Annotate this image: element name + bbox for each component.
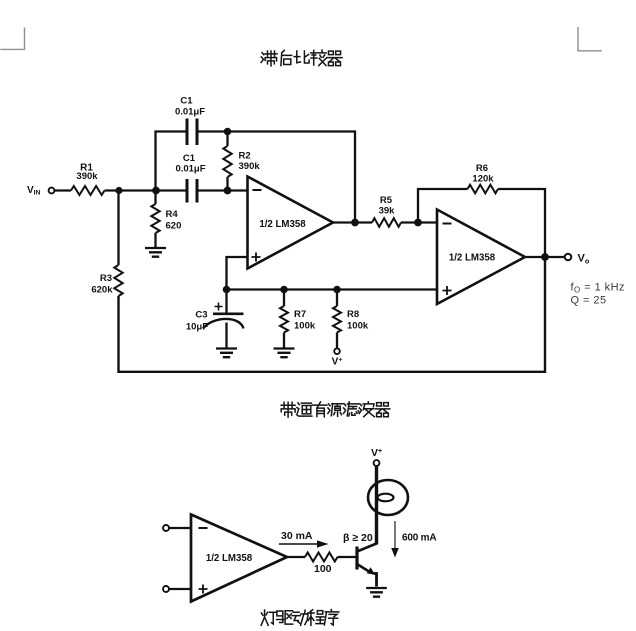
- transistor Q1 base bar: [355, 547, 358, 570]
- resistor R5: [372, 218, 401, 227]
- ground below C3: [216, 349, 237, 358]
- op-amp U1 (1/2 LM358) triangle: [248, 177, 334, 269]
- svg-text:39k: 39k: [379, 206, 396, 217]
- page corner mark top-left: [0, 28, 24, 50]
- capacitor C3 curved plate: [203, 319, 244, 329]
- label Q = 25: [571, 295, 607, 307]
- op-amp U2 (1/2 LM358) triangle: [437, 210, 525, 305]
- wire node to R7: [283, 290, 285, 307]
- label R7 100k: [294, 309, 316, 332]
- svg-text:620: 620: [166, 221, 182, 232]
- wire R2 bottom stub: [226, 177, 228, 191]
- wire C1 lower to op-amp U1 inverting input: [197, 189, 248, 191]
- svg-text:0.01μF: 0.01μF: [175, 107, 205, 118]
- label VO: [578, 253, 590, 266]
- svg-text:VIN: VIN: [27, 185, 41, 197]
- wire terminal to U3 inverting input: [169, 527, 191, 529]
- node junction C3 top: [223, 286, 231, 294]
- node junction R7 top: [280, 286, 288, 294]
- node V+ terminal above lamp: [374, 460, 380, 466]
- svg-text:100k: 100k: [347, 321, 369, 332]
- caption 灯驱动程序 (lamp driver): [261, 610, 339, 626]
- node junction R4/C1-upper tap: [152, 187, 160, 195]
- op-amp U2 non-inverting input marker: [443, 286, 452, 295]
- svg-text:fO = 1 kHz: fO = 1 kHz: [571, 282, 625, 295]
- wire R8 to V+ terminal: [336, 333, 338, 349]
- wire node row (C3/R7/R8) to op-amp U2 +input: [227, 288, 438, 290]
- resistor 100 (base): [305, 553, 338, 562]
- label beta >= 20: [343, 532, 373, 544]
- label C3 10uF: [186, 310, 208, 333]
- svg-text:C1: C1: [180, 96, 193, 107]
- svg-text:C1: C1: [183, 153, 196, 164]
- transistor Q1 collector stroke: [357, 544, 377, 552]
- resistor R8: [333, 306, 341, 333]
- wire R6 to output node: [498, 189, 545, 257]
- label R1 390k: [76, 163, 98, 183]
- title text 滞后比较器 (hysteresis comparator): [261, 50, 342, 66]
- page corner mark top-right: [578, 27, 602, 51]
- label 100: [314, 563, 332, 575]
- svg-text:R4: R4: [166, 209, 179, 220]
- label R4 620: [166, 209, 182, 232]
- transistor Q1 emitter stroke: [357, 564, 369, 572]
- label V+ above lamp: [371, 447, 382, 459]
- label R8 100k: [347, 309, 369, 332]
- svg-text:10μF: 10μF: [186, 322, 208, 333]
- svg-text:R5: R5: [380, 195, 393, 206]
- node U3 inverting input terminal: [163, 525, 169, 531]
- svg-text:β ≥ 20: β ≥ 20: [343, 532, 373, 544]
- label R2 390k: [239, 151, 261, 173]
- capacitor C3 top plate: [213, 312, 244, 315]
- svg-text:1/2 LM358: 1/2 LM358: [206, 553, 253, 564]
- node VO output terminal: [565, 254, 572, 261]
- wire node to R8: [336, 290, 338, 307]
- label R6 120k: [472, 163, 494, 185]
- label C1 upper: [180, 96, 193, 107]
- resistor R6: [468, 185, 499, 194]
- svg-text:Vo: Vo: [578, 253, 590, 266]
- svg-text:1/2 LM358: 1/2 LM358: [449, 253, 496, 264]
- transistor Q1 emitter arrowhead: [367, 567, 375, 575]
- op-amp U3 non-inverting input marker: [199, 585, 208, 594]
- svg-text:0.01μF: 0.01μF: [175, 164, 205, 175]
- svg-text:100: 100: [314, 563, 332, 575]
- svg-text:R6: R6: [476, 163, 488, 174]
- caption 带通有源滤波器 (bandpass active filter): [281, 402, 390, 417]
- capacitor C1 (lower) plates: [187, 179, 197, 203]
- svg-text:390k: 390k: [76, 171, 98, 182]
- arrow 600 mA current direction: [391, 521, 399, 558]
- resistor R7: [280, 306, 288, 333]
- wire R4 to ground: [154, 233, 156, 247]
- wire emitter to ground: [374, 574, 377, 587]
- label fO = 1 kHz: [571, 282, 625, 295]
- node junction R2 bottom: [224, 187, 232, 195]
- ground below R4: [145, 248, 166, 257]
- wire R1 to C1 lower: [105, 189, 187, 191]
- resistor R3: [114, 265, 122, 296]
- capacitor C1 (upper) plates: [187, 119, 197, 146]
- capacitor C3 polarity + mark: [215, 303, 223, 311]
- wire collector up through lamp to V+ (thick): [375, 466, 378, 545]
- svg-text:R8: R8: [347, 309, 359, 320]
- wire R3 to bottom feedback rail: [119, 257, 546, 372]
- lamp DS1 filament loop: [378, 494, 394, 502]
- svg-text:1/2 LM358: 1/2 LM358: [259, 219, 306, 230]
- label 0.01uF lower: [175, 164, 205, 175]
- wire node to C3: [225, 290, 227, 314]
- label R3 620k: [91, 273, 113, 296]
- svg-text:R2: R2: [239, 151, 251, 162]
- wire U1 output to R5: [333, 221, 372, 223]
- label 30 mA: [281, 530, 313, 542]
- label 600 mA: [402, 533, 436, 544]
- op-amp U1 non-inverting input marker: [252, 253, 261, 262]
- label 1/2 LM358 (U3): [206, 553, 253, 564]
- svg-text:620k: 620k: [91, 285, 113, 296]
- svg-text:120k: 120k: [472, 174, 494, 185]
- svg-text:C3: C3: [195, 310, 207, 321]
- node V+ terminal below R8: [334, 348, 340, 354]
- wire C1 upper to op-amp U1 output node: [197, 132, 355, 223]
- svg-text:390k: 390k: [239, 161, 261, 172]
- lamp DS1 outer circle: [368, 480, 408, 515]
- resistor R2: [223, 146, 231, 177]
- label VIN: [27, 185, 41, 197]
- node junction R3 tap: [115, 187, 122, 194]
- label R5 39k: [379, 195, 396, 217]
- resistor R4: [151, 204, 159, 233]
- wire VIN to R1: [55, 189, 72, 191]
- node junction R2 top: [224, 128, 232, 136]
- svg-text:R3: R3: [100, 273, 112, 284]
- arrow 30 mA current direction: [279, 540, 329, 547]
- op-amp U2 inverting input marker: [443, 223, 452, 225]
- label 0.01uF upper: [175, 107, 205, 118]
- wire node to R3: [117, 191, 119, 266]
- op-amp U3 inverting input marker: [199, 527, 208, 529]
- wire R5 node up to R6 branch: [418, 189, 468, 223]
- ground below Q1 emitter: [366, 588, 387, 597]
- svg-text:100k: 100k: [294, 321, 316, 332]
- svg-text:V+: V+: [371, 447, 382, 459]
- ground below R7: [274, 349, 295, 358]
- svg-text:30 mA: 30 mA: [281, 530, 313, 542]
- wire terminal to U3 non-inverting input: [169, 588, 191, 590]
- wire node to R4: [154, 191, 156, 205]
- node junction U2 output: [541, 253, 549, 261]
- label 1/2 LM358 (U2): [449, 253, 496, 264]
- node U3 non-inverting input terminal: [163, 586, 169, 592]
- wire R2 top stub: [226, 132, 228, 147]
- op-amp U3 (1/2 LM358) triangle: [191, 515, 287, 602]
- wire base resistor to transistor Q1 base: [338, 556, 356, 558]
- wire U2 output to VO terminal: [525, 256, 565, 258]
- node VIN input terminal: [49, 188, 55, 194]
- svg-text:V+: V+: [332, 357, 343, 368]
- wire R5 to U2 inverting input: [401, 221, 437, 223]
- node junction R5/R6: [414, 219, 422, 227]
- node junction R8 top: [333, 286, 341, 294]
- svg-text:Q = 25: Q = 25: [571, 295, 607, 307]
- label C1 lower: [183, 153, 196, 164]
- wire U3 output to base resistor: [287, 556, 305, 558]
- node junction U1 output: [351, 219, 359, 227]
- wire U1 non-inverting input down to node row: [227, 257, 248, 290]
- resistor R1: [71, 186, 105, 195]
- wire node up to C1 upper branch: [156, 132, 187, 191]
- label 1/2 LM358 (U1): [259, 219, 306, 230]
- svg-text:R7: R7: [294, 309, 306, 320]
- wire C3 to ground: [225, 323, 227, 348]
- svg-text:600 mA: 600 mA: [402, 533, 436, 544]
- label V+ below R8: [332, 357, 343, 368]
- wire R7 to ground: [283, 333, 285, 348]
- op-amp U1 inverting input marker: [253, 189, 262, 191]
